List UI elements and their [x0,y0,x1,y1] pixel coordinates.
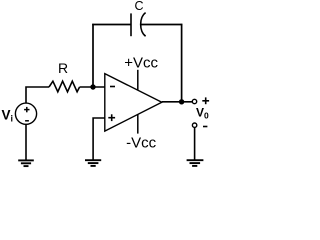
wire: feedback right leg [181,24,183,102]
node junction dot (output) [179,99,184,104]
capacitor C left plate [130,13,132,36]
node junction dot (inverting input) [90,84,95,89]
svg-text:+Vcc: +Vcc [124,55,158,72]
wire: op-amp output [162,101,192,103]
wire: source bottom to ground [25,124,27,160]
voltage source V_i [15,103,36,124]
voltage source minus sign [25,120,29,122]
resistor R [49,81,80,92]
wire: source top to resistor [26,87,49,103]
op-amp U1 triangle [105,74,162,132]
capacitor C right curved plate [141,13,146,37]
wire: noninverting input [93,118,105,160]
wire: feedback top right segment [141,24,183,26]
output plus sign [202,97,209,104]
wire: lower terminal to ground [194,127,196,159]
voltage source plus sign [24,107,29,112]
power stub -Vcc [137,114,139,133]
svg-text:R: R [58,60,68,76]
svg-text:C: C [135,0,144,13]
output terminal + (open circle) [192,99,196,103]
op-amp minus sign [110,86,115,88]
ground (output) [187,160,204,166]
wire: resistor to inverting input [80,86,105,88]
ground (source) [18,160,34,166]
ground (noninverting input) [85,160,101,166]
wire: feedback top left segment [92,24,131,26]
output terminal - (open circle) [192,123,196,127]
svg-text:-Vcc: -Vcc [126,134,157,151]
wire: feedback left leg [92,24,94,87]
power stub +Vcc [137,70,139,91]
output minus sign [203,126,207,128]
op-amp plus sign [108,114,115,121]
